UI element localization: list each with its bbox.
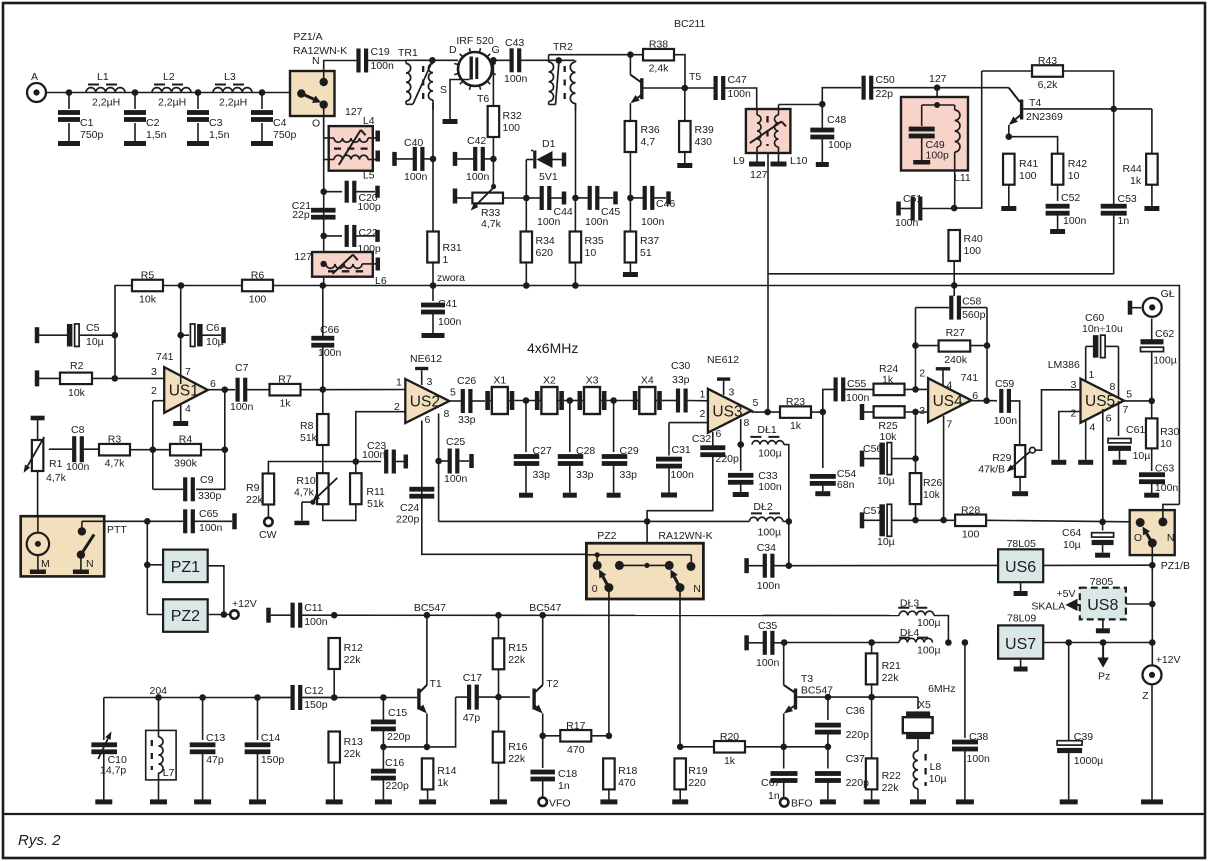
svg-text:100µ: 100µ	[917, 645, 941, 657]
node R2/C5 riser	[112, 375, 119, 382]
wire US6 out	[1043, 564, 1152, 566]
resistor R40	[948, 230, 982, 261]
svg-text:100p: 100p	[926, 150, 950, 162]
svg-text:C9: C9	[200, 474, 214, 486]
svg-text:100n: 100n	[230, 401, 254, 413]
node C15/C16	[380, 744, 387, 751]
node T1 emitter	[424, 744, 431, 751]
svg-text:100n: 100n	[585, 216, 609, 228]
wire C7 to R7	[247, 389, 270, 391]
svg-text:R38: R38	[649, 39, 668, 51]
node C1 top	[66, 89, 73, 96]
node C39	[1065, 639, 1072, 646]
svg-text:100µ: 100µ	[758, 527, 782, 539]
node R17/R18	[606, 733, 613, 740]
capacitor C50	[862, 74, 895, 100]
label RA12WN-K (PZ2)	[658, 530, 712, 542]
svg-text:X5: X5	[918, 699, 931, 711]
svg-text:R36: R36	[641, 124, 660, 136]
label VFO	[549, 798, 571, 810]
svg-text:PZ1/B: PZ1/B	[1161, 560, 1190, 572]
node C25	[435, 458, 442, 465]
node TR2 slash top	[556, 57, 563, 64]
svg-text:7: 7	[185, 366, 191, 378]
capacitor C29	[602, 401, 639, 493]
resistor R23	[780, 396, 811, 432]
svg-text:100n: 100n	[641, 216, 665, 228]
wire R12 bottom	[333, 669, 335, 698]
wire T3 base right	[797, 696, 918, 698]
svg-text:240k: 240k	[944, 354, 968, 366]
svg-text:5: 5	[450, 387, 456, 399]
label RA12WN-K (PZ1/A)	[293, 45, 347, 57]
wire to PZ1 coil	[146, 521, 148, 614]
svg-text:3: 3	[1071, 379, 1077, 391]
svg-text:C15: C15	[388, 707, 407, 719]
node R27 left	[912, 342, 919, 349]
resistor R27	[916, 327, 988, 366]
label BC211	[674, 18, 705, 30]
svg-text:C43: C43	[505, 37, 524, 49]
label L5	[363, 170, 375, 182]
ground L9	[749, 153, 765, 167]
wire US3 output riser	[767, 274, 769, 412]
regulator US6 (78L05)	[998, 549, 1043, 582]
svg-text:51: 51	[640, 247, 652, 259]
svg-text:L9: L9	[733, 155, 745, 167]
svg-text:750p: 750p	[80, 129, 104, 141]
svg-text:1k: 1k	[279, 398, 291, 410]
node C28	[567, 397, 574, 404]
capacitor C47	[714, 74, 752, 100]
ground Z	[1141, 799, 1163, 804]
node C48 top	[819, 101, 826, 108]
wire TR2 top rail to R38	[549, 54, 642, 56]
svg-text:C31: C31	[672, 444, 691, 456]
node C40/R31	[430, 156, 437, 163]
label C43	[505, 37, 524, 49]
svg-text:L7: L7	[163, 767, 175, 779]
relay PZ1/A	[290, 55, 335, 130]
resistor R44	[1146, 154, 1158, 185]
label 127 (L4)	[345, 106, 363, 118]
wire R38 right down	[674, 55, 685, 88]
wire C17 to T2 base	[499, 696, 530, 698]
svg-text:10k: 10k	[923, 489, 941, 501]
svg-text:10k: 10k	[880, 431, 898, 443]
svg-text:2,2µH: 2,2µH	[219, 97, 247, 109]
capacitor C27	[514, 401, 552, 493]
wire pin8/DL2 line	[439, 520, 750, 522]
node C35/T3 collector	[781, 639, 788, 646]
capacitor C13	[190, 698, 226, 800]
node DL4 right	[945, 639, 952, 646]
svg-text:C57: C57	[863, 505, 882, 517]
node R21 top	[868, 639, 875, 646]
capacitor C41	[421, 286, 462, 334]
wire PZ1B N wire	[1163, 504, 1180, 522]
svg-text:100n: 100n	[728, 88, 752, 100]
svg-text:1n: 1n	[1118, 215, 1130, 227]
svg-text:100n: 100n	[1063, 215, 1087, 227]
svg-text:22k: 22k	[882, 782, 900, 794]
svg-text:L10: L10	[790, 155, 808, 167]
wire R15 bottom	[498, 669, 500, 731]
svg-text:10: 10	[585, 247, 597, 259]
wire US3 pin8 down	[740, 419, 742, 445]
svg-text:100n: 100n	[466, 171, 490, 183]
microphone/PTT box	[21, 516, 105, 576]
svg-text:1,5n: 1,5n	[146, 129, 167, 141]
svg-text:1k: 1k	[1130, 175, 1142, 187]
label X5	[918, 699, 931, 711]
label R11 value	[367, 498, 385, 510]
svg-text:Rys. 2: Rys. 2	[18, 832, 61, 849]
svg-text:C61: C61	[1126, 424, 1145, 436]
wire R11 top	[355, 462, 357, 474]
capacitor C12	[291, 685, 328, 711]
label BFO	[791, 798, 813, 810]
tuned circuit L11 with C49	[901, 97, 968, 171]
svg-text:220p: 220p	[846, 729, 870, 741]
node T4 emitter/R41	[1006, 133, 1013, 140]
capacitor C21	[292, 200, 336, 221]
node C36/C37	[825, 744, 832, 751]
wire R17 right	[592, 735, 609, 737]
inductor L8	[913, 751, 946, 799]
svg-text:470: 470	[618, 777, 636, 789]
capacitor C33	[728, 445, 782, 493]
label PZ1/B	[1161, 560, 1190, 572]
svg-text:220p: 220p	[387, 731, 411, 743]
label L11	[954, 172, 971, 184]
wire C26 to X1	[472, 400, 485, 402]
wire S to ground	[450, 80, 470, 120]
wire R39 top	[684, 88, 686, 121]
wire PZ2 0-contact down	[608, 599, 610, 737]
svg-text:S: S	[440, 84, 447, 96]
svg-text:8: 8	[744, 417, 750, 429]
svg-text:51k: 51k	[367, 498, 385, 510]
svg-text:6: 6	[425, 414, 431, 426]
svg-text:127: 127	[750, 169, 768, 181]
label 127 (L6)	[294, 251, 312, 263]
ground C2	[124, 141, 146, 146]
svg-text:33p: 33p	[533, 469, 551, 481]
capacitor C36	[815, 697, 869, 747]
crystal X1	[485, 375, 514, 415]
svg-text:R8: R8	[300, 420, 314, 432]
svg-text:22k: 22k	[508, 654, 526, 666]
svg-text:R3: R3	[108, 434, 122, 446]
ground L8	[910, 799, 926, 804]
svg-text:100p: 100p	[357, 201, 381, 213]
wire C32 to PZ2	[647, 456, 713, 543]
resistor R7	[270, 374, 301, 410]
node rail R34	[523, 282, 530, 289]
svg-text:33p: 33p	[576, 469, 594, 481]
wire R21	[871, 643, 873, 654]
svg-text:DŁ4: DŁ4	[900, 627, 919, 639]
wire C53 bottom to 273 line	[1113, 214, 1115, 274]
svg-text:150p: 150p	[304, 699, 328, 711]
ground R39	[677, 152, 692, 168]
op-amp US2	[394, 376, 456, 426]
ground US6	[1014, 582, 1028, 596]
node pin7/R28 line	[940, 517, 947, 524]
wire +12V osc rail	[302, 614, 899, 616]
wire R22 top	[871, 697, 873, 758]
svg-text:L6: L6	[375, 275, 387, 287]
capacitor C20	[324, 181, 381, 213]
wire T5 base to node	[644, 87, 686, 89]
label R9 value	[246, 494, 264, 506]
capacitor C16	[371, 747, 409, 800]
capacitor C58	[916, 296, 988, 346]
node 204	[155, 694, 162, 701]
wire X1-X2	[515, 400, 536, 402]
arrow Pz	[1097, 643, 1109, 668]
label IRF 520	[456, 35, 494, 47]
node rail zwora	[430, 282, 437, 289]
ground C16	[375, 799, 392, 804]
svg-text:330p: 330p	[198, 490, 222, 502]
svg-text:Pz: Pz	[1098, 671, 1110, 683]
node R21/R22 base	[868, 694, 875, 701]
wire T4 base right	[1023, 108, 1152, 110]
label 4x6MHz	[527, 340, 578, 356]
node C22	[320, 233, 327, 240]
resistor R31	[427, 232, 462, 267]
svg-text:47p: 47p	[206, 754, 224, 766]
node R12/C12	[331, 694, 338, 701]
transistor T3	[784, 643, 833, 747]
wire DL4 line	[784, 642, 899, 644]
ground R44	[1144, 185, 1159, 211]
svg-text:5V1: 5V1	[539, 171, 558, 183]
svg-text:C42: C42	[467, 135, 486, 147]
resistor R14	[422, 758, 457, 789]
crystal X3	[578, 375, 607, 415]
label BC547 (T2)	[529, 602, 561, 614]
capacitor C26	[461, 389, 473, 413]
svg-text:2,2µH: 2,2µH	[158, 97, 186, 109]
terminal BFO	[780, 798, 788, 806]
wire C66 top	[322, 286, 324, 338]
svg-text:R35: R35	[585, 235, 604, 247]
svg-text:22p: 22p	[292, 209, 310, 221]
svg-text:C39: C39	[1074, 731, 1093, 743]
svg-text:100: 100	[1019, 170, 1037, 182]
svg-text:C51: C51	[903, 193, 922, 205]
svg-text:O: O	[312, 118, 320, 130]
svg-text:1k: 1k	[437, 777, 449, 789]
wire US2 pin2 route	[356, 412, 406, 462]
wire US3 out to R23	[751, 411, 780, 413]
crystal X2	[535, 375, 564, 415]
svg-text:68n: 68n	[837, 479, 855, 491]
ground C1	[58, 141, 80, 146]
svg-text:R1: R1	[49, 458, 63, 470]
wire PTT to C65	[104, 520, 183, 522]
capacitor C35	[744, 620, 784, 669]
node C15 top	[380, 694, 387, 701]
svg-text:C59: C59	[995, 378, 1014, 390]
label 741 (US1)	[156, 351, 174, 363]
inductor DL1	[750, 424, 784, 460]
power stub US3 pin3	[717, 377, 730, 395]
wire US4 output	[971, 400, 997, 402]
svg-text:T1: T1	[430, 678, 442, 690]
wire C17 left leg	[427, 697, 456, 747]
regulator US8 (7805)	[1080, 588, 1126, 620]
node C17/R15/R16	[495, 694, 502, 701]
wire R13 bottom	[333, 763, 335, 800]
wire R31 top	[432, 159, 434, 232]
resistor R36	[625, 121, 660, 152]
capacitor C6 (electrolytic)	[181, 322, 226, 348]
wire out to C62	[1151, 352, 1153, 401]
svg-text:741: 741	[961, 372, 979, 384]
capacitor C60 (electrolytic)	[1082, 312, 1123, 358]
svg-text:4,7k: 4,7k	[105, 458, 126, 470]
label NE612 (US2)	[410, 353, 442, 365]
wire PZ1 left	[147, 564, 163, 566]
wire TR1 sec bottom to C40	[432, 103, 434, 159]
capacitor C55	[834, 377, 846, 401]
svg-text:SKALA: SKALA	[1031, 601, 1065, 613]
svg-text:C40: C40	[404, 137, 423, 149]
svg-text:100n: 100n	[895, 217, 919, 229]
svg-text:R43: R43	[1038, 55, 1057, 67]
svg-text:R32: R32	[503, 110, 522, 122]
node C36 top	[825, 694, 832, 701]
wire DL1 right down	[784, 445, 789, 522]
node T5 base/R39	[682, 85, 689, 92]
label SKALA	[1031, 601, 1065, 613]
wire C60 right to pin8	[1118, 346, 1120, 398]
transistor T4 (2N2369)	[1009, 88, 1063, 137]
label 6MHz	[928, 683, 955, 695]
svg-text:X3: X3	[586, 375, 599, 387]
svg-text:1k: 1k	[790, 420, 802, 432]
wire US1 pin4 ground	[180, 405, 182, 421]
capacitor C52	[1046, 192, 1087, 229]
capacitor C28	[558, 401, 596, 493]
wire out riser	[224, 390, 226, 450]
svg-text:4: 4	[185, 403, 191, 415]
svg-text:3: 3	[151, 366, 157, 378]
svg-text:R14: R14	[437, 765, 456, 777]
relay contacts PZ1/B	[1130, 510, 1175, 555]
crystal X4	[633, 375, 662, 415]
svg-text:X2: X2	[543, 375, 556, 387]
wire C47 to L9 box	[725, 88, 757, 109]
svg-text:R7: R7	[278, 374, 292, 386]
potentiometer R1	[24, 416, 67, 517]
ground R18	[600, 789, 617, 804]
svg-text:100µ: 100µ	[917, 617, 941, 629]
svg-text:G: G	[492, 44, 500, 56]
svg-text:33p: 33p	[672, 374, 690, 386]
svg-text:7: 7	[1123, 404, 1129, 416]
svg-text:6MHz: 6MHz	[928, 683, 955, 695]
resistor R37	[625, 232, 660, 263]
svg-text:R41: R41	[1019, 158, 1038, 170]
svg-text:100n: 100n	[318, 347, 342, 359]
svg-text:0: 0	[592, 583, 598, 595]
ground C64	[1095, 553, 1110, 558]
ground R41	[1001, 185, 1016, 211]
wire PZ2 N-contact down	[679, 599, 681, 747]
svg-text:100n: 100n	[967, 753, 991, 765]
wire R43 right	[1063, 71, 1114, 109]
svg-text:100: 100	[249, 294, 267, 306]
svg-text:127: 127	[345, 106, 363, 118]
svg-text:22p: 22p	[876, 88, 894, 100]
wire US1 pin2	[153, 400, 164, 402]
svg-text:A: A	[31, 71, 38, 83]
wire US5 pin6 down	[1102, 409, 1104, 522]
ground US5 pin2	[1051, 460, 1066, 465]
wire C54 riser	[822, 412, 824, 468]
wire R23 right	[811, 411, 823, 413]
relay coil PZ2	[163, 599, 208, 632]
svg-text:10µ: 10µ	[877, 536, 895, 548]
svg-text:C36: C36	[846, 705, 865, 717]
wire C48 node up to C50	[822, 88, 861, 105]
node C51/R40	[951, 205, 958, 212]
svg-text:R15: R15	[508, 642, 527, 654]
svg-text:US1: US1	[169, 382, 199, 399]
svg-text:1,5n: 1,5n	[209, 129, 230, 141]
node PTT/C65/PZ1	[144, 518, 151, 525]
resistor R9	[263, 474, 275, 505]
svg-text:+5V: +5V	[1057, 588, 1076, 600]
svg-text:C14: C14	[261, 732, 280, 744]
svg-text:X4: X4	[641, 375, 654, 387]
wire antenna line	[46, 92, 290, 94]
ground US5 pin4	[1078, 460, 1093, 465]
svg-text:100: 100	[503, 122, 521, 134]
label TR1	[398, 47, 418, 59]
node C38 top	[962, 639, 969, 646]
svg-text:14,7p: 14,7p	[100, 765, 126, 777]
svg-text:L8: L8	[930, 761, 942, 773]
node C42/R32	[490, 156, 497, 163]
wire PZ1 right	[208, 566, 224, 615]
node C29	[610, 397, 617, 404]
wire R41/R42 branch	[1009, 137, 1058, 154]
node C27	[523, 397, 530, 404]
svg-text:C47: C47	[728, 74, 747, 86]
node C57/R28	[912, 517, 919, 524]
svg-text:100n: 100n	[671, 469, 695, 481]
svg-text:470: 470	[567, 744, 585, 756]
wire US2 pin8 down	[438, 414, 440, 522]
svg-text:100n: 100n	[362, 449, 386, 461]
label L6	[375, 275, 387, 287]
wire 204 line	[104, 697, 291, 699]
svg-text:C46: C46	[656, 198, 675, 210]
capacitor C63	[1139, 463, 1178, 495]
svg-text:2: 2	[394, 401, 400, 413]
node US5 out	[1148, 398, 1155, 405]
svg-text:100n: 100n	[304, 616, 328, 628]
node C14 top	[254, 694, 261, 701]
svg-text:100n: 100n	[438, 316, 462, 328]
svg-text:C41: C41	[438, 298, 457, 310]
